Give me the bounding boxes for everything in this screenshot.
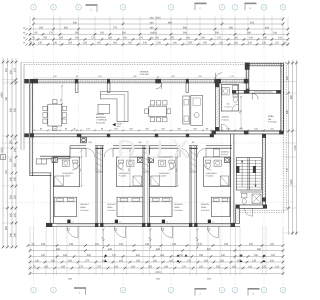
svg-text:170: 170 [112, 254, 117, 257]
svg-text:180: 180 [171, 75, 174, 78]
svg-text:125: 125 [262, 265, 267, 268]
svg-text:250: 250 [127, 169, 130, 172]
svg-text:990: 990 [168, 21, 173, 24]
svg-text:165: 165 [63, 254, 68, 257]
svg-text:350: 350 [75, 32, 80, 35]
svg-text:165: 165 [164, 265, 169, 268]
svg-text:1510: 1510 [0, 147, 3, 153]
interior dimension row above corridor [33, 128, 281, 132]
svg-text:BORAVAK: BORAVAK [96, 116, 106, 119]
wall: bedroom wing north corridor [40, 145, 232, 159]
svg-text:170: 170 [91, 37, 96, 40]
svg-text:P=4,6m2: P=4,6m2 [159, 175, 167, 178]
svg-text:170: 170 [139, 37, 144, 40]
left margin small mark [1, 155, 6, 160]
svg-text:160: 160 [13, 162, 16, 167]
porch box [36, 159, 46, 164]
door swing hall to living [222, 124, 229, 131]
svg-text:1020: 1020 [290, 179, 293, 185]
svg-text:485: 485 [156, 248, 161, 251]
svg-text:+0,00: +0,00 [116, 122, 122, 125]
wall: horizontal at y131 (south of SOBA room) [212, 131, 284, 135]
unit exterior doors with swings [67, 220, 219, 238]
svg-text:150: 150 [75, 37, 80, 40]
svg-text:160: 160 [173, 42, 178, 45]
section cut mark 3 top [245, 3, 257, 11]
svg-text:210: 210 [5, 67, 8, 72]
level mark +0,00 [112, 122, 122, 128]
svg-text:170: 170 [49, 32, 54, 35]
svg-text:195: 195 [39, 26, 44, 29]
svg-text:485: 485 [56, 248, 61, 251]
svg-text:160: 160 [113, 42, 118, 45]
svg-text:165: 165 [119, 259, 124, 262]
svg-text:250: 250 [9, 157, 12, 162]
svg-text:175: 175 [187, 259, 192, 262]
svg-text:350: 350 [215, 32, 220, 35]
svg-text:485: 485 [108, 248, 113, 251]
svg-text:250: 250 [79, 169, 82, 172]
svg-text:35: 35 [13, 79, 16, 82]
svg-text:DNEVNI: DNEVNI [96, 113, 104, 116]
svg-text:165: 165 [199, 265, 204, 268]
kitchenette nook label [214, 149, 230, 157]
svg-text:90: 90 [157, 76, 159, 79]
svg-text:165: 165 [51, 259, 56, 262]
svg-text:165: 165 [220, 259, 225, 262]
svg-text:165: 165 [232, 265, 237, 268]
svg-text:390: 390 [5, 225, 8, 230]
svg-text:SOBA: SOBA [80, 206, 86, 209]
svg-text:150: 150 [155, 37, 160, 40]
wall piers on north wall [30, 79, 249, 84]
svg-text:160: 160 [219, 42, 224, 45]
left dimension extension lines [2, 62, 18, 247]
interior vertical chain living room [59, 85, 63, 120]
door swing top-right room [252, 93, 258, 99]
svg-text:1700: 1700 [294, 145, 297, 151]
svg-text:290: 290 [247, 32, 252, 35]
svg-text:590: 590 [183, 26, 188, 29]
svg-text:155: 155 [170, 37, 175, 40]
svg-text:VEŠERAJ: VEŠERAJ [221, 150, 229, 153]
wall: top-right block north [246, 63, 283, 66]
svg-text:240: 240 [9, 232, 12, 237]
right dimension extension lines [283, 63, 297, 233]
svg-text:30: 30 [195, 237, 198, 239]
svg-text:150: 150 [100, 32, 105, 35]
svg-text:740: 740 [5, 96, 8, 101]
svg-text:540: 540 [73, 21, 78, 24]
svg-text:140: 140 [234, 42, 239, 45]
svg-text:70: 70 [13, 137, 16, 140]
svg-text:160: 160 [153, 259, 158, 262]
corner sofa [101, 92, 129, 122]
svg-text:240: 240 [13, 232, 16, 237]
svg-text:150: 150 [13, 212, 16, 217]
svg-text:300: 300 [122, 32, 127, 35]
svg-text:165: 165 [136, 259, 141, 262]
walls: unit separating double pairs [96, 134, 234, 223]
svg-text:P=51,0m2: P=51,0m2 [96, 121, 106, 124]
svg-text:775: 775 [113, 26, 118, 29]
svg-text:250: 250 [175, 169, 178, 172]
svg-text:2410: 2410 [155, 16, 161, 19]
svg-text:165: 165 [114, 265, 119, 268]
dining table east with chairs [145, 101, 171, 122]
section cut mark 3 bottom [248, 288, 260, 296]
svg-text:165: 165 [131, 265, 136, 268]
svg-text:155: 155 [188, 42, 193, 45]
wall hatching strokes [30, 65, 283, 222]
interior vertical dimension chains in units [79, 150, 178, 187]
svg-text:P=4,6m2: P=4,6m2 [119, 175, 127, 178]
svg-text:140: 140 [249, 37, 254, 40]
svg-text:1850: 1850 [0, 92, 3, 98]
section cut mark 1 bottom [74, 287, 86, 295]
bottom benchmark triangles [104, 254, 266, 262]
svg-text:HODNIK: HODNIK [222, 116, 230, 119]
label living room [96, 113, 107, 124]
svg-text:KUPAONICA: KUPAONICA [62, 172, 74, 175]
svg-text:160: 160 [108, 37, 113, 40]
bathrooms of units 1,3 with fixtures [53, 157, 176, 187]
svg-text:210: 210 [9, 69, 12, 74]
section cut mark 2 bottom [195, 288, 207, 296]
svg-text:155: 155 [148, 265, 153, 268]
svg-text:30: 30 [148, 237, 151, 239]
svg-text:220: 220 [13, 194, 16, 199]
svg-text:120: 120 [275, 42, 280, 45]
svg-text:P=13,5m2: P=13,5m2 [107, 209, 115, 212]
roof overhang outline left [21, 63, 24, 150]
top dimension extension lines [30, 17, 288, 47]
svg-text:140: 140 [35, 259, 40, 262]
svg-text:190: 190 [270, 243, 275, 246]
svg-text:240: 240 [53, 75, 56, 78]
hall interior dim chain [238, 96, 242, 129]
pier stubs toward overhang west [24, 79, 29, 137]
svg-text:170: 170 [217, 37, 222, 40]
svg-text:-0,02: -0,02 [116, 125, 120, 128]
svg-text:240: 240 [221, 254, 226, 257]
svg-text:160: 160 [254, 254, 259, 257]
svg-text:200: 200 [249, 243, 254, 246]
svg-text:P=13,8m2: P=13,8m2 [268, 121, 277, 124]
wall: living area south / corridor north [30, 134, 214, 138]
svg-text:I. KUHINJA: I. KUHINJA [96, 119, 107, 122]
wall: wing south with windows [46, 223, 240, 227]
svg-text:150: 150 [201, 37, 206, 40]
svg-text:P=4,6m2: P=4,6m2 [62, 175, 70, 178]
svg-text:P=13,5m2: P=13,5m2 [174, 209, 182, 212]
svg-text:150: 150 [97, 42, 102, 45]
svg-text:145: 145 [252, 259, 257, 262]
svg-text:220: 220 [9, 194, 12, 199]
axis marker circles bottom [31, 287, 286, 293]
svg-text:720: 720 [5, 169, 8, 174]
left dimension lines with ticks and values [0, 58, 17, 248]
svg-text:120: 120 [9, 139, 12, 144]
svg-text:140: 140 [262, 42, 267, 45]
svg-text:30: 30 [101, 237, 104, 239]
svg-text:240: 240 [198, 243, 203, 246]
svg-text:330: 330 [229, 26, 234, 29]
corridor unit door swings [86, 148, 206, 157]
svg-text:200: 200 [95, 243, 100, 246]
svg-text:SPAVAĆA: SPAVAĆA [201, 203, 210, 206]
kitchen counter along wall [183, 96, 190, 124]
svg-text:615: 615 [250, 21, 255, 24]
svg-text:245: 245 [145, 243, 150, 246]
window bay return stubs under north wall [75, 83, 188, 92]
wall: porch notch south [30, 173, 52, 176]
column with circle at axis crossing [81, 137, 87, 143]
wall: stair east [262, 134, 266, 205]
terrace door swing at north wall [156, 76, 162, 89]
svg-text:300: 300 [87, 254, 92, 257]
svg-text:P=3,2m2: P=3,2m2 [221, 153, 228, 156]
svg-text:140: 140 [263, 37, 268, 40]
svg-text:155: 155 [216, 265, 221, 268]
svg-text:130: 130 [9, 176, 12, 181]
corridor width figures [88, 141, 195, 144]
svg-text:P=13,5m2: P=13,5m2 [80, 209, 88, 212]
svg-text:145: 145 [248, 265, 253, 268]
bottom sub figures [68, 278, 211, 281]
svg-text:110: 110 [278, 37, 283, 40]
svg-text:150: 150 [157, 42, 162, 45]
svg-text:160: 160 [234, 37, 239, 40]
svg-text:310: 310 [153, 32, 158, 35]
svg-text:240: 240 [198, 75, 201, 78]
svg-text:P=45,2m2: P=45,2m2 [140, 73, 150, 76]
wall: top-right block west [245, 63, 250, 94]
right dimension lines with ticks and values [286, 60, 298, 235]
wall: step between south walls [236, 208, 240, 223]
svg-text:135: 135 [83, 42, 88, 45]
svg-text:240: 240 [98, 75, 101, 78]
staircase double flight [236, 158, 261, 191]
wall: entry hall west (vertical x216) [215, 83, 219, 131]
svg-text:160: 160 [68, 259, 73, 262]
bottom dimension extension lines [30, 226, 283, 275]
wall: living area west [30, 79, 34, 137]
svg-text:TERASA: TERASA [140, 70, 149, 73]
hall label [222, 116, 230, 122]
top dimension left-end tick clusters [23, 26, 31, 45]
bedroom labels [80, 203, 210, 212]
svg-text:150: 150 [9, 212, 12, 217]
unit bathroom corner columns [52, 157, 230, 162]
bottom dimension lines with ticks and values [27, 243, 285, 275]
axis marker circles top [31, 4, 286, 10]
svg-text:190: 190 [271, 254, 276, 257]
svg-text:175: 175 [79, 265, 84, 268]
wall: unit1 west [50, 157, 53, 223]
svg-text:680: 680 [290, 94, 293, 99]
svg-text:240: 240 [119, 243, 124, 246]
svg-text:245: 245 [224, 243, 229, 246]
svg-text:185: 185 [199, 254, 204, 257]
svg-text:DUX: DUX [117, 134, 197, 164]
svg-text:245: 245 [41, 243, 46, 246]
entry bathroom near hall [221, 84, 238, 111]
grid axis dashed horizontal lines [5, 82, 294, 203]
svg-text:200: 200 [179, 254, 184, 257]
roof overhang outline right [284, 63, 286, 213]
svg-text:130: 130 [13, 176, 16, 181]
svg-text:165: 165 [68, 42, 73, 45]
stair landing wc room [240, 192, 262, 204]
svg-text:SPAVAĆA: SPAVAĆA [174, 203, 183, 206]
svg-text:140: 140 [13, 147, 16, 152]
svg-text:145: 145 [38, 42, 43, 45]
svg-text:480: 480 [257, 248, 262, 251]
svg-text:300: 300 [136, 254, 141, 257]
svg-text:115: 115 [275, 265, 280, 268]
wall: living area north (window band) [30, 78, 249, 83]
wall: top-right block south with window [232, 90, 281, 94]
coffee table [98, 104, 110, 113]
window head dimension figures above north wall [53, 75, 233, 78]
kitchen island [191, 95, 203, 125]
label soba top right [268, 115, 277, 124]
svg-text:150: 150 [128, 42, 133, 45]
section cut mark 2 top [195, 3, 207, 11]
svg-text:240: 240 [41, 254, 46, 257]
svg-text:175: 175 [85, 259, 90, 262]
svg-text:400: 400 [265, 26, 270, 29]
svg-text:155: 155 [43, 37, 48, 40]
sub-wall dimension chains [101, 229, 199, 249]
svg-text:SOBA: SOBA [107, 206, 113, 209]
section cut mark 1 top [86, 4, 98, 12]
svg-text:140: 140 [53, 42, 58, 45]
svg-text:165: 165 [169, 259, 174, 262]
svg-text:90: 90 [76, 75, 78, 78]
svg-text:245: 245 [172, 243, 177, 246]
top dimension lines with ticks and values [29, 16, 290, 45]
svg-text:165: 165 [61, 265, 66, 268]
svg-text:140: 140 [248, 42, 253, 45]
svg-text:360: 360 [64, 26, 69, 29]
roof overhang outline top [21, 63, 286, 65]
grid axis dashed vertical lines [34, 11, 284, 286]
svg-text:SOBA: SOBA [174, 206, 180, 209]
svg-text:175: 175 [97, 265, 102, 268]
beds [54, 197, 230, 216]
svg-text:350: 350 [238, 111, 241, 114]
roof overhang outline bottom terrace [240, 211, 286, 213]
svg-text:140: 140 [230, 75, 233, 78]
svg-text:165: 165 [59, 37, 64, 40]
svg-text:245: 245 [69, 243, 74, 246]
svg-text:SPAVAĆA: SPAVAĆA [80, 203, 89, 206]
svg-text:SOBA: SOBA [268, 115, 274, 118]
svg-text:P=9,6m2: P=9,6m2 [222, 118, 229, 121]
svg-text:240: 240 [273, 32, 278, 35]
label terasa [140, 70, 150, 76]
wall: building east (top-right) [281, 63, 284, 134]
svg-text:SOBA: SOBA [201, 206, 207, 209]
svg-text:P=13,5m2: P=13,5m2 [201, 209, 209, 212]
svg-text:520: 520 [207, 248, 212, 251]
svg-text:520: 520 [59, 99, 62, 102]
svg-text:530: 530 [13, 107, 16, 112]
svg-text:SPAVAĆA: SPAVAĆA [107, 203, 116, 206]
svg-text:P=3,9m2: P=3,9m2 [225, 105, 232, 108]
svg-text:200: 200 [270, 259, 275, 262]
hatched shafts between unit pair walls [96, 149, 197, 173]
svg-text:KUPAONICA: KUPAONICA [159, 172, 171, 175]
svg-text:165: 165 [160, 254, 165, 257]
svg-text:2410: 2410 [155, 271, 161, 274]
dining table west with chairs [43, 100, 67, 131]
svg-text:290: 290 [183, 32, 188, 35]
svg-text:P=4,6m2: P=4,6m2 [206, 175, 214, 178]
top dimension center stacked figures [150, 16, 155, 39]
svg-text:175: 175 [13, 67, 16, 72]
entry door swing at north wall [216, 73, 222, 79]
svg-text:150: 150 [123, 37, 128, 40]
svg-text:165: 165 [44, 265, 49, 268]
bathrooms of units 2,4 mirrored [117, 157, 231, 187]
svg-text:160: 160 [204, 259, 209, 262]
svg-text:150: 150 [203, 42, 208, 45]
svg-text:170: 170 [182, 265, 187, 268]
svg-text:300: 300 [133, 75, 136, 78]
svg-text:160: 160 [186, 37, 191, 40]
svg-text:530: 530 [9, 107, 12, 112]
svg-text:KUPAONICA: KUPAONICA [206, 172, 218, 175]
svg-text:140: 140 [143, 42, 148, 45]
wall: wing west upper [30, 137, 33, 176]
wall: right section south [236, 205, 268, 217]
